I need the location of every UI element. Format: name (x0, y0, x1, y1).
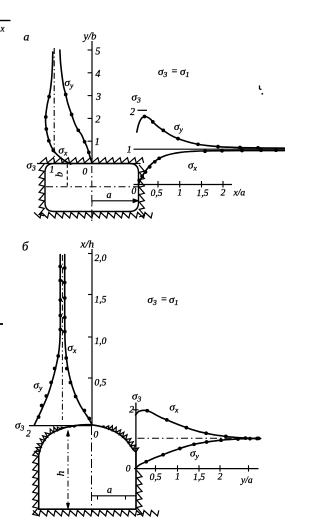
data points sigma_y (b right) (144, 437, 260, 464)
crown line horizontal axis (subfig b) (29, 425, 92, 427)
vertical centerline (subfig b tunnel) (91, 426, 93, 513)
stray dash left edge (0, 323, 3, 325)
svg-text:1,0: 1,0 (95, 337, 107, 347)
reference line value 1 (subfig a right) (134, 148, 286, 150)
axis title y/b (83, 32, 97, 43)
svg-text:1: 1 (177, 189, 182, 199)
axis x/h vertical (subfig b left graph) (88, 249, 92, 425)
axis labels y/b ticks 1-5 (95, 47, 101, 148)
svg-text:1,5: 1,5 (193, 473, 205, 483)
hatch right wall (subfig a) (139, 165, 144, 217)
horizontal axis y/a (subfig b right graph) (134, 465, 259, 471)
svg-text:x: x (0, 24, 5, 34)
curve sigma_y (subfig a right graph) (137, 116, 285, 148)
svg-text:2,0: 2,0 (95, 254, 107, 264)
roof line horizontal axis (subfig a) (37, 163, 141, 165)
label h (rotated, subfig b) (55, 470, 67, 476)
curve sigma_x (subfig b left graph) (65, 255, 92, 425)
opening outline (rounded rectangle, subfig a) (45, 164, 139, 212)
label 1 (reference line) (127, 146, 132, 156)
label sigma_y (subfig a left) (65, 77, 74, 90)
dimension h line (subfig b) (67, 431, 70, 509)
label sigma_x (subfig b left) (68, 342, 77, 355)
data points sigma_x (b right) (145, 409, 259, 441)
dash-dot asymptote value 1 (subfig a left) (53, 48, 55, 163)
svg-text:0: 0 (126, 465, 131, 475)
dash-dot reference line value 1 (subfig b right) (138, 437, 261, 439)
svg-text:0,5: 0,5 (151, 189, 163, 199)
label sigma_y (subfig a right) (174, 121, 183, 134)
axis tick labels y/a (150, 473, 223, 484)
svg-text:1,5: 1,5 (197, 189, 209, 199)
axis title x/h (80, 239, 95, 251)
horizontal axis x/a (subfig a right graph) (134, 181, 233, 188)
axis title y/a (240, 476, 253, 486)
label sigma_x (subfig b right) (170, 402, 179, 415)
label sigma_y (subfig b right) (190, 448, 199, 461)
svg-text:0: 0 (132, 187, 137, 197)
dash-dot asymptote value 1 (subfig b left) (61, 255, 63, 420)
svg-text:0,5: 0,5 (150, 473, 162, 483)
data points sigma_y (b left) (37, 265, 62, 419)
svg-text:a: a (107, 190, 112, 201)
label sigma3 (subfig b left axis) (15, 420, 24, 433)
label sigma3 (subfig b right) (132, 391, 141, 404)
label sigma_y (subfig b left) (34, 380, 43, 393)
data points sigma_x left (44, 95, 55, 152)
svg-text:2: 2 (221, 189, 226, 199)
curve sigma_x (subfig a right graph) (138, 151, 285, 185)
svg-text:0: 0 (83, 168, 88, 178)
svg-text:1: 1 (175, 473, 180, 483)
data points sigma_y left (64, 93, 91, 155)
tunnel floor line (39, 508, 136, 510)
svg-text:2: 2 (130, 107, 135, 118)
hatch right wall (subfig b) (137, 471, 142, 515)
hatch arch (subfig b) (35, 426, 139, 456)
svg-text:1: 1 (127, 146, 132, 156)
dimension a line (subfig b) (92, 496, 137, 500)
svg-text:2: 2 (218, 473, 223, 483)
svg-text:3: 3 (95, 92, 101, 103)
label sigma_x (subfig a right) (188, 160, 197, 173)
svg-text:a: a (107, 485, 112, 496)
dashed half-height line b (subfig a) (66, 165, 68, 187)
axis labels x/h ticks (95, 254, 107, 389)
vertical centerline (subfig a opening) (91, 166, 93, 224)
data points sigma_x right (137, 148, 278, 182)
axis y/b vertical (subfig a left graph) (88, 41, 92, 164)
origin label 0 (subfig b right) (126, 465, 131, 475)
label sigma3 (left axis end, subfig a) (27, 160, 36, 173)
equation sigma3 = sigma1 (subfig a) (158, 66, 189, 79)
tick label 2 (subfig b left axis) (26, 430, 31, 440)
curve sigma_y (subfig b right graph) (136, 438, 261, 468)
curve sigma_x (subfig b right graph) (136, 410, 261, 438)
origin label 0 (left graph a) (83, 168, 88, 178)
svg-text:1,5: 1,5 (95, 296, 107, 306)
origin label 0 (subfig b left) (94, 431, 99, 441)
svg-text:=: = (161, 295, 168, 306)
curve sigma_y (subfig b left graph) (34, 255, 60, 426)
svg-text:5: 5 (95, 47, 100, 58)
tick label 2 (subfig b right) (129, 406, 134, 416)
svg-text:y/a: y/a (240, 476, 253, 486)
label sigma3 (subfig a right axis) (132, 92, 141, 105)
data points sigma_y right (143, 115, 260, 150)
svg-text:h: h (55, 470, 67, 476)
svg-text:а: а (24, 31, 30, 44)
hatch bottom (subfig a) (34, 212, 152, 218)
svg-text:y/b: y/b (83, 32, 97, 43)
hatch floor (subfig b) (33, 510, 159, 516)
label a dimension (subfig a) (107, 190, 112, 201)
fragment overline x (cut at left edge) (0, 21, 11, 34)
vertical axis sigma3 (subfig b right graph) (133, 403, 139, 469)
hatch roof (subfig a) (40, 158, 144, 163)
hatch left wall (subfig a) (39, 164, 44, 216)
svg-text:4: 4 (95, 69, 100, 80)
svg-text:b: b (55, 172, 66, 177)
tunnel outline (arched opening, subfig b) (39, 425, 136, 510)
equation sigma3 = sigma1 (subfig b) (148, 294, 179, 307)
svg-text:0: 0 (94, 431, 99, 441)
axis tick labels x/a (151, 189, 226, 200)
stray scan speck (260, 86, 264, 95)
svg-text:1: 1 (95, 137, 100, 148)
svg-text:x/a: x/a (233, 189, 246, 199)
tick label 1 on stress axis (50, 166, 55, 176)
svg-text:2: 2 (26, 430, 31, 440)
label a (panel marker) (24, 31, 30, 44)
tick 2 with dash (subfig a right) (130, 107, 147, 118)
svg-text:б: б (22, 240, 29, 254)
svg-text:x/h: x/h (80, 239, 95, 251)
svg-text:0,5: 0,5 (95, 379, 107, 389)
svg-text:=: = (171, 67, 178, 78)
hatch left wall (subfig b) (33, 449, 38, 516)
svg-text:2: 2 (129, 406, 134, 416)
data points sigma_x (b left) (63, 266, 91, 420)
origin label 0 (right graph a) (132, 187, 137, 197)
axis title x/a (233, 189, 246, 199)
horizontal centerline (subfig a opening) (46, 186, 142, 188)
curve sigma_x (subfig a left graph) (46, 52, 71, 164)
curve sigma_y (subfig a left graph) (60, 50, 92, 163)
dimension a line (subfig a) (92, 199, 139, 205)
label sigma_x (subfig a left) (59, 145, 68, 158)
label b (panel marker, Cyrillic be) (22, 240, 29, 254)
label a dimension (subfig b) (107, 485, 112, 496)
svg-text:2: 2 (95, 115, 100, 126)
label b (rotated, subfig a) (55, 172, 66, 177)
